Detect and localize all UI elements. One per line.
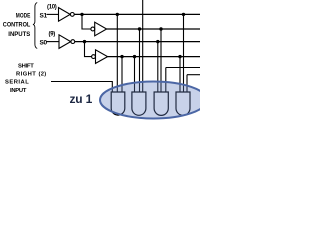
and-gate G3 <box>154 92 168 115</box>
svg-text:SERIAL: SERIAL <box>5 80 29 86</box>
junction dot H1 x117 <box>116 13 119 16</box>
svg-text:MODE: MODE <box>16 12 31 19</box>
svg-text:(9): (9) <box>49 32 56 38</box>
junction dot node A <box>80 13 83 16</box>
wire V3c corner from H5 to gate3 <box>165 68 167 93</box>
svg-text:INPUT: INPUT <box>10 88 27 94</box>
inverter U2 (S1 second buffer) <box>95 22 107 36</box>
svg-text:S1: S1 <box>40 12 48 19</box>
and-gate G1 <box>111 92 125 115</box>
wire drop from node A to U2 input <box>82 14 91 29</box>
inverter U4 (S0 second buffer) <box>96 50 108 64</box>
junction dot H2 x139 <box>138 27 141 30</box>
wire serial input horizontal <box>51 82 112 93</box>
highlight ellipse overlay <box>100 82 207 119</box>
wire V3a S0-bar drop to gate3 <box>157 42 159 93</box>
svg-text:INPUTS: INPUTS <box>8 31 30 38</box>
inverter U1 (S1 first inverter) <box>59 8 71 22</box>
junction dot H4 x122 <box>120 55 123 58</box>
wire H1 S1-bar net <box>74 13 200 15</box>
junction dot H2 x161 <box>159 27 162 30</box>
wire V4b S1-bar drop to gate4 <box>183 14 185 92</box>
wire H3 S0-bar net <box>75 41 200 43</box>
junction dot node B <box>83 40 86 43</box>
wire clock vertical from top <box>142 0 144 93</box>
junction dot H1 x183 <box>182 13 185 16</box>
wire S0 input stub <box>47 41 60 43</box>
wire H5 right feedback upper <box>166 67 200 69</box>
svg-text:RIGHT: RIGHT <box>16 72 36 78</box>
wire V1a S1-bar drop to gate1 <box>116 14 118 92</box>
wire V2a S0 drop to gate2 <box>134 57 136 93</box>
wire V1b S0 drop to gate1 <box>121 57 123 93</box>
inverter U4 input bubble <box>92 55 96 59</box>
wire drop from node B to U4 input <box>85 42 92 57</box>
svg-text:(2): (2) <box>39 72 47 78</box>
inverter U3 output bubble <box>71 40 75 44</box>
svg-text:CONTROL: CONTROL <box>3 22 31 29</box>
wire H4 S0 net <box>108 56 200 58</box>
and-gate G2 <box>132 92 146 115</box>
wire H2 S1 net <box>107 28 200 30</box>
junction dot H4 x134 <box>133 55 136 58</box>
wire V2b S1 drop to gate2 <box>139 29 141 93</box>
inverter U2 input bubble <box>91 27 95 31</box>
svg-text:SHIFT: SHIFT <box>18 63 34 69</box>
brace for mode control inputs <box>33 3 37 49</box>
inverter U1 output bubble <box>70 13 74 17</box>
wire H6 right feedback lower <box>187 74 200 76</box>
inverter U3 (S0 first inverter) <box>59 35 71 49</box>
svg-text:zu 1: zu 1 <box>70 92 93 106</box>
junction dot H4 x180 <box>178 55 181 58</box>
junction dot H3 x157 <box>156 40 159 43</box>
and-gate G4 <box>176 92 190 115</box>
svg-text:(10): (10) <box>47 4 57 10</box>
wire V3b S1 drop to gate3 <box>160 29 162 93</box>
wire S1 input stub <box>47 13 59 15</box>
wire V4c corner from H6 to gate4 <box>186 75 188 93</box>
svg-text:S0: S0 <box>40 40 48 47</box>
wire V4a S0 drop to gate4 <box>179 57 181 93</box>
